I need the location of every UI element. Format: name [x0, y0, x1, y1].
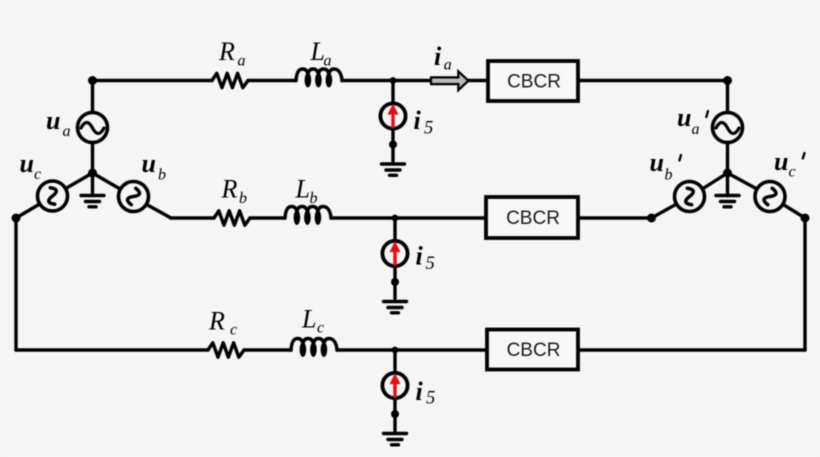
resistor Rb: [214, 211, 250, 225]
ground below i5 phase b: [384, 302, 407, 313]
wire ua' to right neutral node: [726, 143, 729, 174]
node tap of i5 phase c: [392, 347, 399, 354]
svg-text:5: 5: [424, 119, 433, 139]
node between i5 phase b and ground: [391, 278, 399, 286]
ground below i5 phase c: [384, 434, 407, 445]
current arrow ia (block arrow): [431, 71, 468, 90]
wire uc to left rail node: [16, 204, 40, 218]
svg-text:R: R: [208, 306, 225, 335]
svg-text:u: u: [46, 106, 60, 135]
wire phase b to resistor Rb: [171, 216, 214, 219]
node A (top left junction): [88, 76, 97, 85]
wire node B' to ub': [652, 204, 677, 218]
node tap of i5 phase b: [392, 215, 399, 222]
svg-text:CBCR: CBCR: [507, 71, 561, 92]
wire phase c: left rail to resistor Rc: [16, 348, 208, 351]
wire node A down to source ua: [91, 81, 94, 113]
svg-text:b: b: [665, 166, 673, 183]
current source i5 phase c: [382, 350, 407, 431]
node between i5 phase c and ground: [391, 410, 399, 418]
svg-text:5: 5: [426, 254, 435, 274]
wire right neutral to ub': [703, 173, 728, 189]
svg-text:b: b: [310, 190, 318, 207]
red arrow of i5 phase b: [390, 241, 401, 265]
wire CBCR phase b to node B': [578, 216, 652, 219]
voltage source ua: [78, 113, 108, 143]
CBCR block phase a: [488, 61, 578, 101]
voltage source ub': [675, 182, 705, 212]
voltage source uc': [755, 182, 785, 212]
node right neutral: [723, 169, 732, 178]
wire left neutral to uc: [66, 173, 93, 188]
node right rail top: [801, 214, 810, 223]
wire left rail (phase c return): [14, 218, 17, 350]
resistor Ra: [212, 73, 248, 87]
node A' (top right junction): [723, 76, 732, 85]
node B' (phase b right junction): [647, 214, 656, 223]
svg-text:c: c: [34, 166, 41, 183]
node left rail top: [12, 214, 21, 223]
ground left neutral: [81, 173, 104, 207]
svg-text:a: a: [238, 53, 246, 70]
voltage source uc: [38, 181, 68, 211]
svg-text:a: a: [692, 121, 700, 138]
svg-text:i: i: [434, 42, 442, 71]
svg-text:i: i: [414, 106, 422, 135]
wire uc' to right rail node: [783, 205, 805, 218]
svg-text:c: c: [230, 322, 237, 339]
svg-text:i: i: [416, 242, 424, 271]
svg-text:c: c: [789, 164, 796, 181]
svg-text:L: L: [301, 304, 316, 333]
ground below i5 phase a: [382, 164, 405, 175]
svg-text:CBCR: CBCR: [507, 340, 561, 361]
wire Lc to CBCR phase c (through tap node): [337, 348, 487, 351]
inductor Lb: [285, 207, 331, 225]
svg-text:R: R: [221, 175, 238, 204]
svg-text:a: a: [324, 53, 332, 70]
current source i5 phase b: [382, 218, 407, 299]
svg-text:u: u: [677, 103, 691, 132]
voltage source ua': [713, 113, 743, 143]
red arrow of i5 phase a: [388, 104, 399, 129]
svg-text:R: R: [218, 37, 235, 66]
ground right neutral: [716, 173, 739, 207]
CBCR block phase c: [487, 330, 578, 370]
inductor Lc: [291, 339, 337, 357]
wire node A' down to source ua': [726, 81, 729, 113]
svg-text:b: b: [158, 166, 166, 183]
CBCR block phase b: [486, 197, 578, 238]
svg-text:5: 5: [426, 389, 435, 409]
wire La to CBCR phase a (through tap node): [342, 79, 488, 82]
red arrow of i5 phase c: [390, 373, 401, 398]
wire ua to left neutral node: [91, 143, 94, 174]
svg-text:L: L: [295, 175, 310, 204]
wire ub to phase b line: [147, 205, 171, 219]
wire right neutral to uc': [728, 173, 758, 189]
wire left neutral to ub: [93, 173, 120, 189]
voltage source ub: [119, 182, 149, 212]
wire Rc to Lc: [244, 348, 291, 351]
current source i5 phase a: [380, 81, 405, 162]
resistor Rc: [208, 343, 244, 357]
svg-text:b: b: [239, 190, 247, 207]
svg-text:a: a: [63, 123, 71, 140]
wire CBCR phase c to right rail: [578, 348, 805, 351]
wire Rb to Lb: [250, 216, 285, 219]
wire right rail (phase c return): [803, 218, 806, 350]
wire Lb to CBCR phase b (through tap node): [331, 216, 486, 219]
svg-text:u: u: [20, 149, 34, 178]
svg-text:u: u: [142, 149, 156, 178]
svg-text:c: c: [317, 320, 324, 337]
svg-text:CBCR: CBCR: [506, 208, 560, 229]
svg-text:u: u: [650, 148, 664, 177]
node tap of i5 phase a: [390, 77, 397, 84]
inductor La: [296, 69, 342, 87]
svg-text:u: u: [774, 147, 788, 176]
wire CBCR phase a to node A': [578, 79, 728, 82]
svg-text:a: a: [444, 57, 452, 74]
wire Ra to La: [248, 79, 296, 82]
node between i5 phase a and ground: [389, 141, 397, 149]
svg-text:i: i: [416, 377, 424, 406]
node left neutral: [88, 169, 97, 178]
wire phase a: node A to resistor Ra: [93, 79, 213, 82]
